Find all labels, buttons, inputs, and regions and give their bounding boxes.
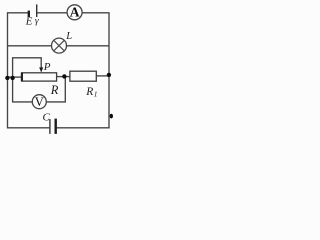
svg-text:A: A bbox=[70, 5, 80, 20]
svg-text:C: C bbox=[43, 111, 51, 123]
svg-text:R: R bbox=[85, 86, 93, 98]
svg-text:R: R bbox=[50, 83, 59, 97]
svg-text:γ: γ bbox=[35, 17, 39, 27]
svg-text:L: L bbox=[65, 31, 72, 42]
svg-text:E: E bbox=[25, 15, 33, 27]
svg-text:1: 1 bbox=[94, 89, 98, 98]
svg-text:P: P bbox=[43, 61, 51, 73]
svg-text:V: V bbox=[35, 95, 44, 109]
